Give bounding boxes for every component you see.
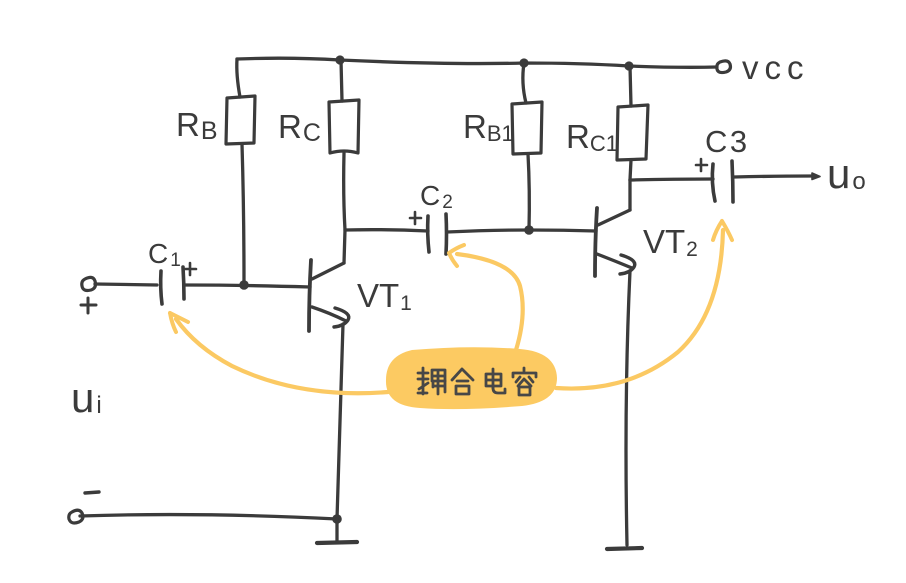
svg-text:C3: C3 <box>705 124 750 159</box>
transistor Q VT2 base bar <box>595 208 597 276</box>
wire RB top <box>237 59 240 97</box>
svg-text:VT2: VT2 <box>643 223 698 261</box>
node junction RB1-rail <box>519 58 528 67</box>
resistor RC1 <box>617 105 648 160</box>
svg-text:C1: C1 <box>148 238 181 271</box>
transistor VT1 collector <box>312 263 344 279</box>
wire RC bottom to collector <box>344 153 345 263</box>
wire collector node to C2 <box>345 230 428 231</box>
wire to ground 1 <box>335 519 338 542</box>
svg-text:uo: uo <box>827 150 866 197</box>
node junction bottom <box>332 514 342 524</box>
node output terminal arrow <box>812 173 820 180</box>
svg-text:RC1: RC1 <box>566 118 618 156</box>
capacitor C1 left plate <box>161 271 162 304</box>
resistor RB1 <box>512 102 542 154</box>
capacitor C2 plus <box>410 212 421 224</box>
arrow to C3 <box>556 230 723 389</box>
resistor RB <box>226 96 255 144</box>
capacitor C3 left plate <box>712 164 715 201</box>
transistor VT1 emitter arrowhead <box>334 308 349 327</box>
char 电 <box>486 369 505 393</box>
resistor RC <box>329 100 359 153</box>
svg-text:RB1: RB1 <box>463 108 514 146</box>
char 合 <box>452 369 473 394</box>
wire RC1 bottom <box>630 160 631 180</box>
arrow to C1 <box>176 319 388 393</box>
wire VT2 emitter down <box>626 271 630 545</box>
wire VT1 emitter down <box>337 324 343 519</box>
capacitor C1 plus <box>185 263 196 275</box>
char 耦 <box>418 368 445 394</box>
wire C1 to VT1 base <box>185 285 310 287</box>
svg-text:RB: RB <box>176 106 218 145</box>
svg-text:vcc: vcc <box>742 49 810 86</box>
callout bubble 耦合电容 <box>386 347 557 409</box>
wire C3 to output <box>734 176 812 177</box>
svg-text:VT1: VT1 <box>357 277 412 315</box>
transistor VT2 emitter arrowhead <box>620 255 635 274</box>
transistor VT2 emitter <box>597 254 632 268</box>
transistor VT1 emitter <box>312 307 346 321</box>
capacitor C2 left plate <box>428 216 429 252</box>
node junction RC1-rail <box>624 61 633 70</box>
svg-text:RC: RC <box>278 108 321 147</box>
svg-text:C2: C2 <box>420 180 453 213</box>
wire input to C1 <box>95 284 157 285</box>
capacitor C3 plus <box>696 159 707 171</box>
node junction RB-base <box>239 280 249 290</box>
wire RC1 node down <box>628 180 631 210</box>
wire bottom return <box>80 515 337 519</box>
label input minus <box>85 492 99 493</box>
wire RB1 bottom <box>528 154 529 230</box>
wire RC1 top <box>630 66 631 106</box>
wire RB1 top <box>523 63 526 103</box>
wire VCC rail <box>237 58 717 67</box>
node input bottom terminal <box>69 510 83 523</box>
node junction C2-base <box>524 225 534 235</box>
capacitor C3 right plate <box>732 161 733 202</box>
transistor Q VT1 base bar <box>309 260 311 331</box>
svg-text:ui: ui <box>71 374 102 421</box>
capacitor C1 right plate <box>183 267 184 299</box>
node input top terminal <box>82 277 96 290</box>
wire RC top <box>341 60 342 101</box>
arrow to C2 <box>457 254 523 350</box>
ground GND1 <box>317 542 357 543</box>
wire RB bottom <box>242 144 244 284</box>
node junction RC-rail <box>335 55 344 64</box>
ground GND2 <box>607 548 642 549</box>
wire collector2 node to C3 <box>630 179 713 180</box>
transistor VT2 collector <box>598 210 630 225</box>
label input plus <box>81 298 96 313</box>
capacitor C2 right plate <box>444 214 448 254</box>
char 容 <box>513 368 536 395</box>
node VCC terminal <box>717 61 731 73</box>
wire C2 to VT2 base <box>447 230 596 232</box>
